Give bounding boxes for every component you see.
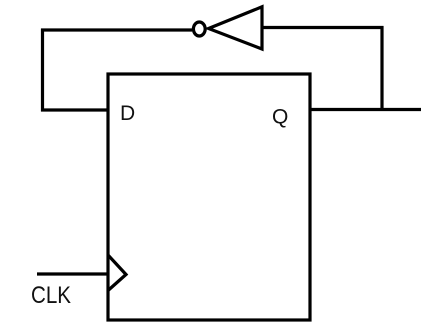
wire: right vertical feedback segment: [380, 26, 383, 110]
svg-text:Q: Q: [272, 106, 288, 129]
wire: top feedback segment from inverter output bubble to left corner: [41, 28, 192, 31]
wire: Q output to right edge: [310, 108, 421, 111]
inverter U2: [209, 7, 263, 49]
wire: CLK input: [37, 272, 108, 275]
wire: into D input of flip-flop: [41, 108, 109, 111]
svg-text:CLK: CLK: [31, 282, 71, 309]
D flip-flop U1 body: [108, 74, 310, 320]
clock edge-trigger symbol on flip-flop: [108, 255, 126, 291]
wire: inverter input segment from feedback corner: [262, 26, 384, 29]
wire: left vertical feedback segment: [41, 29, 44, 112]
svg-text:D: D: [120, 102, 135, 125]
inverter U2 output bubble: [193, 22, 205, 36]
